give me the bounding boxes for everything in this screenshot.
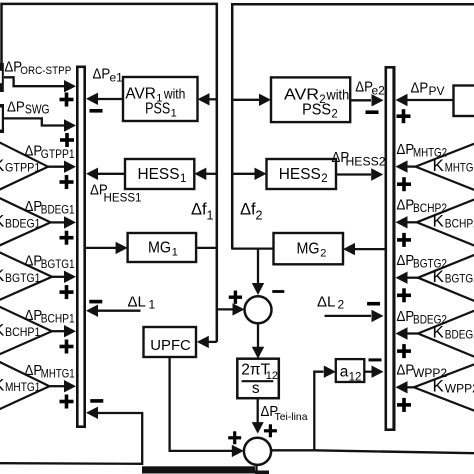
wire ΔP_e1 AVR1 to B1	[86, 93, 123, 105]
block AVR1 with PSS1	[123, 77, 198, 121]
label ΔP_e1	[93, 66, 124, 85]
svg-text:e2: e2	[372, 84, 386, 98]
gain K_BDEG2 triangle	[418, 308, 474, 360]
svg-text:BDEG1: BDEG1	[5, 216, 41, 230]
wire ΔL1 into B1	[86, 305, 141, 317]
wire ΔP_BDEG1 to B1	[51, 216, 76, 228]
svg-text:BGTG1: BGTG1	[41, 257, 75, 271]
svg-text:UPFC: UPFC	[150, 337, 191, 354]
svg-text:e1: e1	[110, 71, 124, 85]
svg-text:ΔP: ΔP	[397, 308, 415, 325]
svg-text:ΔP: ΔP	[397, 141, 415, 158]
label HESS2 text	[279, 166, 328, 185]
svg-text:ΔP: ΔP	[397, 197, 415, 214]
svg-text:MHTG1: MHTG1	[5, 380, 41, 394]
svg-text:12: 12	[349, 371, 362, 383]
sign − (ΔP_e2)	[366, 110, 379, 114]
label 2πT12/s text	[241, 362, 278, 397]
svg-text:Δf: Δf	[191, 201, 207, 219]
label AVR1 text	[125, 86, 185, 120]
sign + (MHTG1)	[60, 395, 74, 409]
wire B1 to MG1	[86, 242, 128, 254]
sign + (BGTG1)	[60, 285, 74, 299]
label K_MHTG2	[433, 156, 474, 175]
label ΔP_BCHP1	[25, 307, 75, 326]
wire Δf2 to HESS2	[232, 168, 266, 180]
svg-text:ΔP: ΔP	[25, 253, 43, 270]
wire Δf2 vertical and top to right edge	[232, 4, 474, 248]
svg-text:BGTG2: BGTG2	[445, 272, 474, 286]
svg-text:2: 2	[320, 248, 326, 260]
wire ΔP_BGTG2 to B2	[396, 272, 419, 284]
label ΔP_Tei-lina	[261, 403, 308, 423]
wire ΔP_PV to B2	[396, 94, 454, 106]
svg-text:ΔP: ΔP	[25, 198, 43, 215]
wire ΔP_BDEG2 to B2	[396, 327, 419, 339]
svg-text:HESS2: HESS2	[346, 157, 386, 169]
svg-text:SWG: SWG	[25, 103, 50, 117]
sign + (BDEG1)	[60, 231, 74, 245]
label MG1 text	[148, 240, 178, 259]
gain K_WPP2 triangle	[414, 362, 474, 414]
node Δf2 label	[240, 201, 263, 223]
wire ΔP_HESS2 to B2	[336, 168, 383, 180]
label a12 text	[340, 363, 362, 383]
sign − (ΔL2)	[367, 302, 380, 306]
svg-text:PSS: PSS	[302, 102, 331, 119]
sign + (BCHP2)	[397, 233, 411, 247]
block AVR2 with PSS2	[271, 77, 350, 122]
summer S2	[244, 438, 271, 465]
label HESS1 text	[138, 166, 187, 185]
wire ΔP_MHTG1 to B1	[49, 380, 76, 392]
svg-text:1: 1	[149, 298, 156, 312]
svg-text:ΔP: ΔP	[25, 143, 43, 160]
svg-text:BDEG1: BDEG1	[41, 203, 75, 217]
sign + (SWG)	[60, 133, 74, 147]
gain K_GTPP1 triangle	[0, 139, 48, 193]
block a12	[336, 359, 365, 382]
label ΔP_MHTG2	[397, 141, 448, 160]
gain K_BGTG2 triangle	[418, 252, 474, 304]
label AVR2 text	[284, 87, 349, 121]
svg-text:WPP2: WPP2	[413, 366, 447, 380]
wire S1 to T12 block	[252, 323, 264, 358]
wire ΔP_SWG to B1	[4, 118, 76, 131]
svg-text:ΔP: ΔP	[93, 66, 111, 83]
wire Δf2 to AVR2	[232, 94, 271, 106]
sign + (WPP2)	[397, 398, 411, 412]
wire Δf1 to AVR1	[198, 93, 217, 105]
svg-text:PV: PV	[429, 84, 445, 98]
svg-text:BGTG2: BGTG2	[413, 257, 447, 271]
block MG1	[128, 233, 197, 262]
svg-text:PSS: PSS	[145, 100, 170, 117]
gain K_MHTG2 triangle	[416, 141, 474, 193]
label K_BGTG1	[0, 266, 41, 285]
gain K_BCHP1 triangle	[0, 304, 52, 358]
label ΔP_BDEG1	[25, 198, 75, 217]
svg-text:Δf: Δf	[240, 201, 256, 219]
sign + (tie into S2)	[264, 424, 277, 437]
svg-text:WPP2: WPP2	[445, 381, 474, 395]
svg-text:BCHP1: BCHP1	[5, 325, 41, 339]
svg-text:BCHP1: BCHP1	[41, 312, 75, 326]
svg-text:HESS1: HESS1	[104, 193, 142, 205]
gain K_BGTG1 triangle	[0, 249, 52, 302]
svg-text:a: a	[340, 363, 349, 380]
wire ΔP_GTPP1 to B1	[48, 161, 76, 173]
wire ΔP_BCHP1 to B1	[52, 325, 76, 337]
wire ΔP_e2 AVR2 to B2	[350, 94, 383, 106]
label ΔL2	[317, 294, 345, 312]
block MG2	[274, 233, 344, 264]
label ΔP_BGTG1	[25, 253, 75, 272]
svg-text:ΔP: ΔP	[397, 252, 415, 269]
sign − (ΔL1)	[89, 300, 102, 304]
svg-text:MG: MG	[297, 241, 320, 258]
wire MG2 out to S1 −	[231, 249, 273, 295]
sign + (ORC-STPP)	[60, 93, 74, 107]
sign − (Δf2 into S1)	[272, 290, 284, 293]
svg-text:GTPP1: GTPP1	[5, 161, 41, 175]
wire S2 output stub down to tie bus	[255, 463, 257, 472]
sign + (UPFC into S2)	[228, 431, 241, 444]
svg-text:GTPP1: GTPP1	[41, 147, 75, 161]
summing bar B1 (area 1 frequency node)	[76, 66, 86, 429]
block UPFC	[144, 327, 197, 357]
svg-text:ORC-STPP: ORC-STPP	[20, 65, 71, 77]
label ΔP_PV	[411, 80, 445, 99]
label K_BCHP1	[0, 320, 41, 339]
wire ΔP_BCHP2 to B2	[396, 216, 417, 228]
svg-text:BCHP2: BCHP2	[413, 201, 447, 215]
svg-text:MHTG2: MHTG2	[445, 161, 474, 175]
wire S2 output right to area 2	[272, 450, 474, 453]
svg-text:HESS: HESS	[138, 166, 180, 183]
svg-text:BDEG2: BDEG2	[445, 328, 474, 342]
block HESS1	[125, 159, 194, 189]
wire S2 to a12	[314, 366, 336, 451]
wire ΔP_MHTG2 to B2	[396, 160, 416, 172]
svg-text:BCHP2: BCHP2	[445, 216, 474, 230]
wire Δf1 to S1 +	[217, 303, 245, 315]
block SWG (cut at edge)	[0, 104, 4, 133]
wire ΔP_HESS1 to B1	[86, 168, 125, 180]
svg-text:ΔL: ΔL	[128, 294, 146, 311]
label ΔP_ORC-STPP	[4, 59, 71, 78]
svg-text:ΔP: ΔP	[25, 307, 43, 324]
svg-text:s: s	[252, 380, 260, 397]
block PV (cut at edge)	[454, 86, 474, 117]
svg-text:ΔP: ΔP	[355, 79, 373, 96]
sign − (a12 into B2)	[369, 358, 382, 361]
gain K_BDEG1 triangle	[0, 195, 51, 249]
sign − (ΔP_e1)	[90, 109, 103, 113]
label ΔP_BCHP2	[397, 197, 448, 216]
svg-text:ΔP: ΔP	[25, 362, 43, 379]
svg-text:MG: MG	[148, 240, 171, 257]
label K_BDEG1	[0, 212, 41, 231]
wire a12 to B2	[364, 366, 383, 378]
label ΔL1	[128, 294, 156, 312]
svg-text:with: with	[163, 86, 185, 102]
label K_WPP2	[433, 377, 474, 396]
block HESS2	[267, 159, 337, 189]
wire T12 to S2	[252, 398, 264, 433]
sign + (BGTG2)	[397, 288, 411, 302]
label ΔP_SWG	[7, 99, 50, 117]
svg-text:with: with	[326, 87, 350, 103]
sign + (BDEG2)	[397, 344, 411, 358]
svg-text:BDEG2: BDEG2	[413, 312, 447, 326]
svg-text:1: 1	[172, 247, 178, 259]
block 2πT12/s	[237, 359, 278, 399]
sign + (BCHP1)	[60, 340, 74, 354]
svg-text:MHTG2: MHTG2	[413, 145, 447, 159]
label ΔP_WPP2	[397, 362, 448, 381]
sign + (Δf1 into S1)	[229, 291, 242, 304]
svg-text:2: 2	[338, 298, 345, 312]
sign + (GTPP1)	[60, 175, 74, 189]
svg-text:ΔP: ΔP	[397, 362, 415, 379]
wire ΔP_BGTG1 to B1	[52, 271, 76, 283]
summing bar B2 (area 2 frequency node)	[385, 66, 396, 431]
summer S1	[245, 296, 272, 323]
svg-text:2: 2	[321, 173, 327, 185]
wire ΔP_ORC-STPP to B1	[4, 77, 76, 92]
svg-text:1: 1	[207, 209, 214, 223]
sign + (MHTG2)	[397, 177, 411, 191]
svg-text:HESS: HESS	[279, 166, 321, 183]
label ΔP_HESS1	[90, 182, 142, 205]
label K_BCHP2	[433, 212, 474, 231]
svg-text:ΔL: ΔL	[317, 294, 335, 311]
wire thick tie-line bus (bottom)	[142, 466, 269, 474]
sign − (tie into B1)	[90, 399, 103, 403]
label ΔP_HESS2	[332, 149, 386, 169]
svg-text:MHTG1: MHTG1	[41, 367, 75, 381]
svg-text:ΔP: ΔP	[7, 99, 25, 116]
label ΔP_GTPP1	[25, 143, 75, 162]
svg-text:1: 1	[180, 173, 186, 185]
wire Δf1 into UPFC	[197, 336, 217, 348]
wire MG1 out to Δf1 node	[196, 247, 218, 249]
label UPFC text	[150, 337, 191, 354]
label K_MHTG1	[0, 375, 41, 394]
gain K_MHTG1 triangle	[0, 359, 49, 413]
label ΔP_BDEG2	[397, 308, 448, 327]
svg-text:12: 12	[266, 370, 278, 382]
wire ΔL2 into B2	[325, 310, 384, 322]
label K_BGTG2	[433, 267, 474, 286]
label ΔP_MHTG1	[25, 362, 75, 381]
node Δf1 label	[191, 201, 214, 223]
gain K_BCHP2 triangle	[417, 197, 474, 249]
label K_BDEG2	[433, 323, 474, 342]
sign + (PV)	[397, 109, 411, 123]
label ΔP_BGTG2	[397, 252, 448, 271]
wire Δf1 to HESS1	[194, 168, 217, 180]
svg-text:Tei-lina: Tei-lina	[275, 411, 308, 423]
wire B2 to MG2	[343, 243, 385, 255]
label MG2 text	[297, 241, 327, 260]
wire UPFC output to S2	[170, 357, 244, 457]
wire ΔP_WPP2 to B2	[396, 381, 414, 393]
wire ΔP_tie feedback into B1	[0, 407, 142, 464]
svg-text:1: 1	[171, 107, 177, 119]
wire Δf1 loop (left frame, top, down between areas)	[2, 4, 217, 342]
svg-text:ΔP: ΔP	[411, 80, 429, 97]
svg-text:2: 2	[256, 209, 263, 223]
label ΔP_e2	[355, 79, 385, 98]
label K_GTPP1	[0, 156, 41, 175]
svg-text:2: 2	[331, 109, 337, 121]
block ORC-STPP (cut at edge)	[0, 63, 4, 92]
svg-text:BGTG1: BGTG1	[5, 271, 41, 285]
